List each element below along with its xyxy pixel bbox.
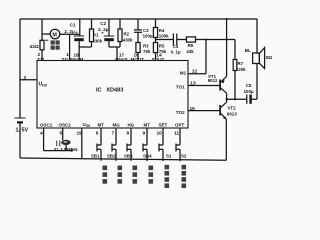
svg-text:OSC2: OSC2 — [59, 122, 72, 127]
svg-text:OPT: OPT — [175, 122, 185, 127]
wire left rail lower — [19, 123, 21, 159]
pin 3 UDD stub — [20, 79, 37, 81]
wire C1-R1 junction — [79, 46, 91, 48]
svg-text:MG: MG — [113, 122, 121, 127]
svg-text:12: 12 — [192, 68, 198, 74]
capacitor C3 100p — [134, 19, 142, 43]
svg-text:S2: S2 — [181, 153, 187, 158]
svg-text:6: 6 — [96, 130, 99, 136]
svg-text:43k: 43k — [186, 49, 194, 54]
wire output node — [227, 98, 247, 100]
resistor R7 220k — [233, 40, 237, 100]
svg-text:9012: 9012 — [208, 78, 218, 83]
svg-text:VT2: VT2 — [228, 106, 237, 111]
svg-text:100μ: 100μ — [244, 89, 254, 94]
wire VT1 collector to VT2 collector — [226, 93, 228, 102]
wire bottom rail — [20, 158, 226, 160]
svg-text:1. 5V: 1. 5V — [16, 128, 29, 134]
svg-text:R6: R6 — [188, 43, 194, 48]
switch SB1 — [97, 128, 101, 161]
svg-text:HG: HG — [128, 122, 135, 127]
svg-text:TO1: TO1 — [176, 84, 185, 89]
battery B 1.5V — [15, 118, 26, 122]
svg-text:9: 9 — [143, 130, 146, 136]
speaker BL 8ohm — [253, 48, 265, 69]
pin 17 wire — [116, 47, 118, 61]
svg-text:X1 3.58MHz: X1 3.58MHz — [54, 147, 79, 152]
crystal X1 3.58MHz — [57, 140, 71, 146]
svg-text:10: 10 — [157, 130, 163, 136]
svg-text:R3: R3 — [143, 43, 149, 48]
switch S2 — [176, 128, 180, 161]
capacitor C5 100u — [247, 95, 257, 104]
svg-text:TG: TG — [62, 57, 69, 62]
label col SB4 function — [149, 166, 154, 184]
transistor VT2 9013 — [188, 102, 227, 160]
resistor R5 75k — [153, 43, 157, 61]
svg-text:100k: 100k — [159, 34, 169, 39]
svg-text:C1: C1 — [70, 23, 76, 28]
svg-text:M: M — [52, 32, 57, 38]
node crystal junction — [71, 150, 73, 152]
svg-text:M1: M1 — [180, 71, 187, 76]
svg-text:BL: BL — [245, 48, 251, 53]
pin 12 M1 wire — [188, 40, 206, 74]
svg-text:ENVM: ENVM — [70, 57, 83, 62]
svg-text:3: 3 — [24, 75, 27, 81]
label col S2 function — [182, 165, 187, 188]
resistor 43ohm — [40, 19, 44, 61]
svg-text:R1: R1 — [93, 32, 99, 37]
svg-text:9013: 9013 — [227, 112, 237, 117]
svg-text:UDD: UDD — [39, 82, 48, 88]
wire speaker top — [256, 19, 258, 53]
resistor R6 43k — [187, 37, 236, 42]
svg-text:SET: SET — [159, 122, 168, 127]
svg-text:43Ω: 43Ω — [30, 44, 39, 50]
svg-text:C2: C2 — [100, 21, 106, 26]
pin 4 OSC1 wire — [43, 128, 45, 151]
node R6 line junction — [205, 39, 207, 41]
svg-text:C5: C5 — [246, 83, 252, 88]
microphone M — [42, 29, 80, 39]
label col SB2 function — [118, 166, 123, 184]
svg-text:MOUT: MOUT — [131, 57, 145, 62]
svg-text:100p: 100p — [143, 33, 153, 38]
switch SB2 — [112, 128, 116, 161]
switch S1 — [159, 128, 163, 161]
resistor R4 100k — [153, 19, 157, 43]
svg-text:5: 5 — [60, 130, 63, 136]
svg-text:430k: 430k — [123, 37, 133, 42]
transistor VT1 9012 — [188, 76, 227, 93]
pin 1 wire — [69, 34, 71, 60]
switch SB3 — [127, 128, 131, 161]
minus polarity mark — [45, 39, 48, 41]
svg-text:SOUT: SOUT — [152, 57, 165, 62]
svg-text:R5: R5 — [159, 43, 165, 48]
wire left rail upper — [19, 19, 21, 118]
label col SB1 function — [103, 166, 108, 184]
switch SB4 — [143, 128, 147, 161]
svg-text:4: 4 — [40, 130, 43, 136]
svg-text:19: 19 — [77, 130, 83, 136]
wire C2-R2 junction — [109, 46, 120, 48]
svg-text:OSC1: OSC1 — [40, 122, 53, 127]
svg-text:8Ω: 8Ω — [266, 55, 273, 60]
svg-text:8: 8 — [127, 130, 130, 136]
capacitor C1 2.2u — [74, 19, 85, 47]
resistor R3 75k — [136, 43, 140, 61]
wire top rail — [20, 18, 258, 20]
svg-text:75k: 75k — [143, 49, 151, 54]
svg-text:220k: 220k — [236, 67, 246, 72]
svg-text:SB4: SB4 — [143, 153, 152, 158]
svg-text:13: 13 — [190, 80, 196, 86]
svg-text:SB1: SB1 — [91, 153, 100, 158]
node R7 output junction — [234, 98, 236, 100]
svg-text:S1: S1 — [166, 153, 172, 158]
label col SB3 function — [133, 166, 138, 184]
svg-text:ENVS: ENVS — [115, 57, 128, 62]
node top rail junction — [226, 18, 228, 20]
svg-text:R4: R4 — [159, 28, 165, 33]
svg-text:R2: R2 — [124, 31, 130, 36]
IC XD483 body — [37, 61, 188, 129]
wire mid-right vertical from rail — [226, 19, 228, 76]
resistor R2 430k — [118, 19, 122, 47]
svg-text:R7: R7 — [238, 61, 244, 66]
svg-text:SB2: SB2 — [107, 153, 116, 158]
svg-text:TO2: TO2 — [176, 110, 185, 115]
resistor R1 430k — [90, 19, 94, 47]
svg-text:11: 11 — [174, 130, 179, 136]
capacitor C4 0.1u — [173, 34, 186, 46]
svg-text:2. 2μ: 2. 2μ — [64, 29, 75, 34]
wire crystal loop — [44, 145, 72, 151]
wire R4R5 junction to C4 — [156, 39, 174, 41]
wire speaker bottom — [256, 64, 258, 100]
svg-text:T11: T11 — [37, 57, 45, 62]
pin 19 USS wire — [81, 128, 83, 159]
node output junction — [226, 98, 228, 100]
svg-text:15: 15 — [190, 106, 196, 112]
svg-text:0. 1μ: 0. 1μ — [171, 50, 181, 55]
svg-text:IC XD483: IC XD483 — [96, 88, 123, 94]
svg-text:7: 7 — [112, 130, 115, 136]
svg-text:430k: 430k — [92, 38, 102, 43]
svg-text:C4: C4 — [173, 44, 179, 49]
label mic chinese — [51, 40, 60, 49]
svg-text:MT: MT — [144, 122, 151, 127]
pin 5 OSC2 wire — [62, 128, 64, 140]
svg-text:MT: MT — [98, 122, 105, 127]
svg-text:USS: USS — [83, 122, 92, 128]
capacitor C2 2.2u — [104, 19, 115, 47]
label col S1 function — [165, 165, 170, 188]
pin 18 wire — [78, 47, 80, 61]
svg-text:SB3: SB3 — [124, 153, 133, 158]
